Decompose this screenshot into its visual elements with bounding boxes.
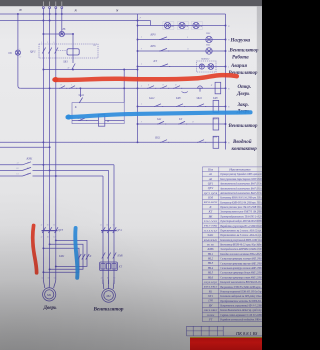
contactor KM2 loop 3 <box>43 248 79 272</box>
svg-text:контактор: контактор <box>232 147 258 152</box>
svg-text:SБ21: SБ21 <box>155 137 161 140</box>
svg-text:Авария: Авария <box>230 64 247 69</box>
svg-text:Вентилятор: Вентилятор <box>229 49 259 54</box>
red sticker block <box>190 337 262 339</box>
svg-text:17: 17 <box>162 85 164 87</box>
svg-text:А1: А1 <box>26 162 29 165</box>
bottom-left shadow <box>0 180 262 350</box>
heater EK2 <box>177 22 188 30</box>
svg-text:В1: В1 <box>27 168 29 170</box>
QF4 pole x114 <box>113 227 116 233</box>
svg-text:Поз: Поз <box>207 168 214 172</box>
top scan band <box>0 0 262 6</box>
door limit contacts <box>147 86 156 89</box>
lamp HL3 <box>206 48 212 54</box>
breaker QF1 pole x49.6 <box>48 48 51 54</box>
wire ladder right rail <box>225 14 227 150</box>
svg-text:КР0: КР0 <box>175 97 181 100</box>
KM1 pole wire y176 <box>0 175 23 177</box>
KM6 pole x114 <box>113 253 116 259</box>
svg-text:17: 17 <box>60 85 62 87</box>
contactor KM2 loop 1 <box>56 240 87 266</box>
lamp HL2 <box>206 36 212 42</box>
QF3 pole x49.6 <box>48 227 51 233</box>
node L1 supply terminal <box>42 7 44 9</box>
blue marker start blob <box>66 114 71 119</box>
svg-text:5: 5 <box>53 42 54 44</box>
red marker start blob <box>53 77 58 82</box>
limit switch contacts left <box>59 86 67 89</box>
svg-text:КТ: КТ <box>153 60 158 63</box>
wire L2 vertical <box>49 9 51 280</box>
red marker vertical stroke <box>33 226 37 273</box>
box B frame <box>72 103 124 124</box>
svg-text:Дверь: Дверь <box>236 92 250 97</box>
svg-text:1: 1 <box>41 42 42 44</box>
svg-text:А1: А1 <box>16 162 19 165</box>
svg-text:11: 11 <box>187 49 189 51</box>
wire left feeder x18 <box>18 14 20 88</box>
red marker horizontal stroke <box>55 75 237 80</box>
wire box right riser <box>123 70 125 103</box>
thermal relay KT frame <box>100 262 118 271</box>
svg-text:В1: В1 <box>17 168 19 170</box>
supply stubs in band <box>42 2 44 7</box>
breaker QF1 pole x43.4 <box>42 48 45 54</box>
svg-text:ПУ: ПУ <box>92 45 97 47</box>
svg-text:Наименование: Наименование <box>228 168 251 172</box>
contactor coil KM <box>213 136 219 148</box>
svg-text:к7: к7 <box>20 57 22 59</box>
junction dots top bus <box>42 13 44 15</box>
svg-text:ЕК: ЕК <box>170 26 174 28</box>
svg-text:Нагрузка: Нагрузка <box>230 39 251 44</box>
title block <box>187 326 263 336</box>
relay coil KP6 <box>213 118 219 130</box>
svg-text:Вводной: Вводной <box>232 139 252 145</box>
svg-text:SБ22: SБ22 <box>197 97 203 100</box>
QF4 pole x108.5 <box>107 227 110 233</box>
KM1 pole wire y164.8 <box>0 164 23 166</box>
wire drop to heater row <box>150 21 152 26</box>
svg-text:Терморегулятор Термодат 10И5 щ: Терморегулятор Термодат 10И5 щитовой <box>220 171 261 176</box>
lamp HL1 <box>59 31 64 36</box>
svg-text:27: 27 <box>192 122 194 124</box>
svg-text:С1: С1 <box>27 174 29 176</box>
wire feed y147.2 <box>0 146 50 148</box>
svg-text:Закр.: Закр. <box>237 103 249 108</box>
wire row Закр Дверь <box>138 105 226 107</box>
svg-text:HL4HA2: HL4HA2 <box>200 58 210 61</box>
blue marker vertical stroke <box>75 228 77 278</box>
buzzer row5 <box>198 86 203 92</box>
QF1 linkage dashes <box>58 50 67 52</box>
heater EK1 <box>163 22 174 30</box>
wires to motor M2 <box>102 280 105 290</box>
KT element x114 <box>112 264 116 269</box>
wires to motor M1 <box>43 280 44 289</box>
svg-text:А1: А1 <box>208 172 213 176</box>
svg-text:N: N <box>18 8 22 12</box>
svg-text:КМ1: КМ1 <box>26 157 33 161</box>
svg-text:ч: ч <box>228 67 229 69</box>
svg-text:SA2: SA2 <box>157 118 162 121</box>
circuit breaker QF1 <box>39 44 98 58</box>
svg-text:SA11: SA11 <box>79 94 85 97</box>
node L3 supply terminal <box>55 7 57 9</box>
wire row Вводной контактор <box>0 141 226 143</box>
svg-text:QF1: QF1 <box>30 49 36 53</box>
svg-text:HL2: HL2 <box>205 32 211 35</box>
KM6 pole x103 <box>102 253 105 259</box>
wire coil to frame <box>105 120 124 122</box>
wire N bus y14 <box>0 13 226 15</box>
QF3 pole x55.8 <box>55 227 58 233</box>
blue marker horizontal stroke <box>68 112 251 117</box>
KT element x108.5 <box>106 264 110 269</box>
relay coil KP0 <box>213 100 219 112</box>
svg-text:КТ: КТ <box>178 118 183 121</box>
svg-text:КР6: КР6 <box>150 45 157 48</box>
node N supply terminal <box>61 7 63 9</box>
QF1 release coil <box>67 49 79 55</box>
svg-text:С1: С1 <box>17 174 19 176</box>
wire QF1 coil drop <box>72 34 74 63</box>
svg-text:ОВ: ОВ <box>8 52 12 55</box>
contactor KM2 loop 2 <box>50 244 83 269</box>
wire ladder left rail <box>137 14 139 142</box>
QF3 pole x43.4 <box>42 227 45 233</box>
QF4 pole x103 <box>102 227 105 233</box>
svg-text:HL: HL <box>62 28 67 31</box>
relay contact KP6 row Вентилятор Работа <box>138 50 226 52</box>
lamp HL4 <box>208 64 214 70</box>
bottom shadow vertical <box>0 190 262 350</box>
svg-text:Работа: Работа <box>232 55 249 60</box>
wire heater row <box>138 25 226 27</box>
right scan strip <box>257 7 262 257</box>
svg-text:HL3: HL3 <box>205 43 211 46</box>
coil B <box>98 115 104 127</box>
wire lamp branch y34 <box>43 33 73 35</box>
KM6 pole x108.5 <box>107 253 110 259</box>
wire control line y69.5 <box>43 69 137 71</box>
KM1 pole wire y170.4 <box>0 169 23 171</box>
heater EK3 <box>191 22 202 30</box>
wire control feed y20.5 <box>0 20 151 22</box>
svg-text:КР0: КР0 <box>150 33 157 36</box>
motor M2 <box>102 289 116 303</box>
svg-text:9: 9 <box>187 37 188 39</box>
QF4 tie bar <box>101 230 117 232</box>
wire row Вентилятор <box>138 123 226 125</box>
breaker QF1 pole x55.8 <box>55 48 58 54</box>
svg-text:2: 2 <box>71 85 72 87</box>
wire N vertical <box>61 9 63 34</box>
KT element x103 <box>101 264 105 269</box>
timer contact KT row Авария <box>138 66 226 68</box>
svg-text:Откр.: Откр. <box>238 85 252 90</box>
wire L1 vertical <box>42 9 44 280</box>
lamp OV <box>15 50 20 55</box>
buzzer HA2 <box>199 64 204 69</box>
svg-text:ЕК: ЕК <box>185 26 189 28</box>
svg-text:SБ1: SБ1 <box>63 59 68 63</box>
svg-text:КР0: КР0 <box>212 97 218 100</box>
svg-text:SA22: SA22 <box>149 97 155 100</box>
svg-text:3: 3 <box>47 42 48 44</box>
motor M1 <box>43 288 56 301</box>
relay contact KP0 row Нагрузка <box>138 39 226 41</box>
QF3 tie bar <box>42 230 58 232</box>
wire row Откр Дверь <box>20 87 225 89</box>
component table <box>202 167 262 322</box>
svg-text:Вентилятор: Вентилятор <box>228 124 258 129</box>
relay coil KP0 row5 <box>215 82 221 94</box>
wire L3 vertical <box>55 9 57 280</box>
alarm group HL4 HA2 dashed box <box>197 61 217 72</box>
node L2 supply terminal <box>49 7 51 9</box>
svg-text:ЕК: ЕК <box>199 26 203 28</box>
